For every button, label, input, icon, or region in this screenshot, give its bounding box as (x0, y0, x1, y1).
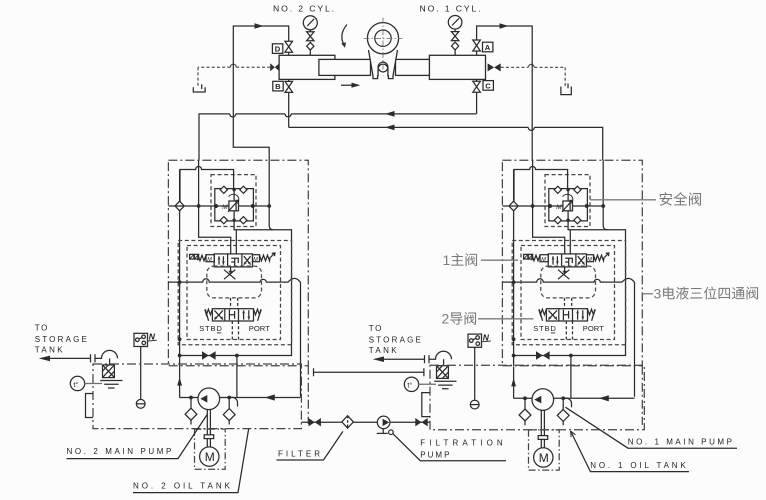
svg-text:NO. 1 MAIN PUMP: NO. 1 MAIN PUMP (628, 438, 735, 447)
pipe: filtration transfer line (301, 421, 430, 423)
svg-text:D: D (275, 45, 281, 54)
right gauge check diamond (452, 42, 459, 50)
NO.2 oil tank unit (35, 323, 301, 469)
valve D label (272, 44, 282, 54)
valve B (285, 81, 293, 92)
rudder actuator inner circle (375, 30, 391, 46)
filtration pump (377, 416, 390, 429)
svg-text:B: B (275, 82, 281, 91)
left gauge isolating valve (307, 32, 314, 41)
pipe: valve B crossover line (289, 92, 603, 160)
svg-text:NO. 2 MAIN PUMP: NO. 2 MAIN PUMP (67, 447, 174, 456)
helm order curved arrow (342, 25, 347, 46)
tiller pin circle (378, 62, 388, 72)
svg-text:PUMP: PUMP (420, 451, 451, 460)
right pressure gauge (448, 15, 462, 29)
valve A (473, 40, 481, 51)
svg-text:NO. 1 CYL.: NO. 1 CYL. (420, 4, 483, 14)
right manifold edge extension dash-dot (641, 366, 643, 425)
valve C (473, 81, 481, 92)
left lock drain dashed pipe (198, 67, 270, 87)
motion arrow under rod (341, 84, 356, 86)
svg-text:FILTER: FILTER (278, 449, 323, 458)
right gauge isolating valve (451, 32, 458, 41)
svg-text:3: 3 (654, 285, 662, 301)
left cylinder body (279, 55, 335, 79)
NO.2 tank level gauge bracket (86, 394, 94, 418)
left manifold edge extension dash-dot (307, 366, 309, 424)
transfer shutoff valve right (415, 418, 427, 426)
NO.2 oil tank dash-dot boundary (93, 364, 301, 429)
right lock drain dashed pipe (501, 67, 566, 86)
svg-text:2: 2 (442, 311, 450, 327)
actuator centerlines (364, 18, 403, 76)
filtration pump drain point (389, 430, 394, 435)
NO.1 oil tank dash-dot boundary (430, 365, 644, 429)
left valve manifold (168, 160, 308, 397)
right drain tank (561, 84, 571, 95)
svg-text:A: A (485, 43, 491, 52)
rudder actuator outer circle (367, 23, 398, 54)
transfer shutoff valve left (309, 418, 321, 426)
tiller yoke (369, 50, 398, 79)
filter (342, 416, 354, 428)
svg-text:NO. 2 CYL.: NO. 2 CYL. (273, 4, 336, 14)
svg-text:1: 1 (443, 252, 451, 268)
valve B label (273, 81, 283, 91)
right valve manifold (copy of left) (502, 160, 642, 397)
3电液三位四通阀 label (654, 285, 759, 301)
1主阀 label (443, 252, 478, 268)
pipe: valve D riser to manifold (233, 26, 288, 160)
right ram rod (396, 59, 430, 75)
pipe: valve A riser to manifold (477, 26, 533, 160)
valve A label (483, 42, 493, 52)
left ram rod (319, 59, 371, 75)
NO.1 oil tank unit (copy) (369, 324, 635, 470)
left pressure gauge (303, 16, 317, 30)
right lock valve (closed bowtie) (488, 63, 501, 71)
right cylinder body (429, 55, 485, 79)
left drain tank (193, 84, 205, 92)
svg-text:NO. 1 OIL TANK: NO. 1 OIL TANK (590, 461, 688, 470)
svg-text:C: C (485, 81, 491, 90)
left gauge check diamond (307, 42, 314, 50)
svg-text:FILTRATION: FILTRATION (420, 438, 506, 447)
2导阀 label (442, 311, 477, 327)
left lock valve (closed bowtie) (270, 63, 279, 71)
pipe: valve C crossover line (199, 92, 477, 160)
valve D (285, 41, 293, 52)
pipe: flanged spare connection (314, 371, 424, 373)
NO.1 tank level gauge bracket (422, 393, 430, 417)
valve C label (483, 81, 493, 91)
svg-text:NO. 2 OIL TANK: NO. 2 OIL TANK (133, 482, 233, 491)
